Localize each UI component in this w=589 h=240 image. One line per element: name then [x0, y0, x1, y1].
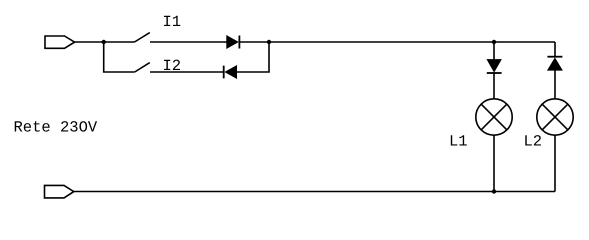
- svg-text:I1: I1: [163, 13, 182, 31]
- diode D3 (down-pointing): [487, 60, 502, 73]
- wire branch vertical A down: [104, 42, 135, 72]
- diode D2 (left-pointing): [224, 66, 237, 79]
- switch I1: [135, 33, 150, 42]
- wire L1 branch: top to diode D3: [493, 42, 495, 61]
- node junction B: [267, 40, 271, 44]
- wire top: diode D1 to L2 corner: [239, 41, 555, 43]
- diode D1 (right-pointing): [227, 36, 240, 49]
- terminal bottom-left (Rete 230V line terminal): [45, 185, 74, 198]
- node junction A: [102, 40, 106, 44]
- wire bottom: terminal to L2 branch: [74, 191, 555, 193]
- wire L2 branch: lamp to bottom wire: [554, 135, 556, 191]
- switch I2: [135, 63, 150, 72]
- terminal top-left (Rete 230V line terminal): [45, 36, 75, 48]
- wire bottom branch: switch I2 to diode D2: [150, 71, 224, 73]
- wire top: switch I1 to diode D1: [150, 41, 227, 43]
- wire L1 branch: diode to lamp: [493, 73, 495, 99]
- node junction C: [492, 40, 496, 44]
- node junction D: [492, 189, 496, 193]
- wire L1 branch: lamp to bottom wire: [493, 135, 495, 191]
- wire L2 branch: corner to diode D4: [554, 42, 556, 57]
- svg-text:L2: L2: [524, 132, 543, 150]
- wire L2 branch: diode to lamp: [554, 70, 556, 99]
- svg-text:L1: L1: [449, 132, 468, 150]
- lamp L1: [476, 99, 512, 135]
- wire top: terminal to switch I1: [75, 41, 135, 43]
- svg-text:Rete 23OV: Rete 23OV: [14, 118, 98, 136]
- lamp L2: [537, 99, 573, 135]
- diode D4 (up-pointing): [547, 57, 562, 70]
- wire bottom branch: diode D2 to riser: [237, 42, 270, 72]
